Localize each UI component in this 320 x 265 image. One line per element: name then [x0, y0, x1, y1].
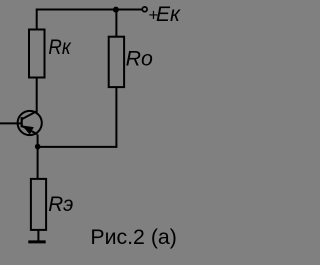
wire: emitter down to Re [37, 135, 39, 179]
svg-text:Rэ: Rэ [48, 192, 73, 216]
ground [28, 240, 45, 243]
svg-text:Rо: Rо [126, 46, 153, 70]
node: emitter junction dot [35, 144, 41, 150]
wire: base lead [0, 122, 22, 124]
svg-text:Рис.2 (а): Рис.2 (а) [90, 225, 176, 249]
resistor Re [31, 179, 46, 230]
resistor Ro [109, 37, 124, 87]
wire: emitter junction to right branch, up to Ro [38, 87, 117, 147]
node: junction dot on top rail [113, 7, 119, 13]
resistor Rk [29, 30, 45, 78]
wire: Ro top to junction dot [115, 10, 117, 37]
wire: Re bottom to ground [37, 230, 39, 241]
svg-text:+Eк: +Eк [148, 3, 181, 26]
transistor VT1 (pnp) [18, 111, 42, 135]
wire: top rail from left branch corner to +Ek terminal [37, 10, 142, 30]
node: +Ek open terminal circle [142, 7, 147, 12]
svg-text:Rк: Rк [48, 35, 71, 59]
wire: Rk bottom to transistor collector [36, 78, 38, 113]
